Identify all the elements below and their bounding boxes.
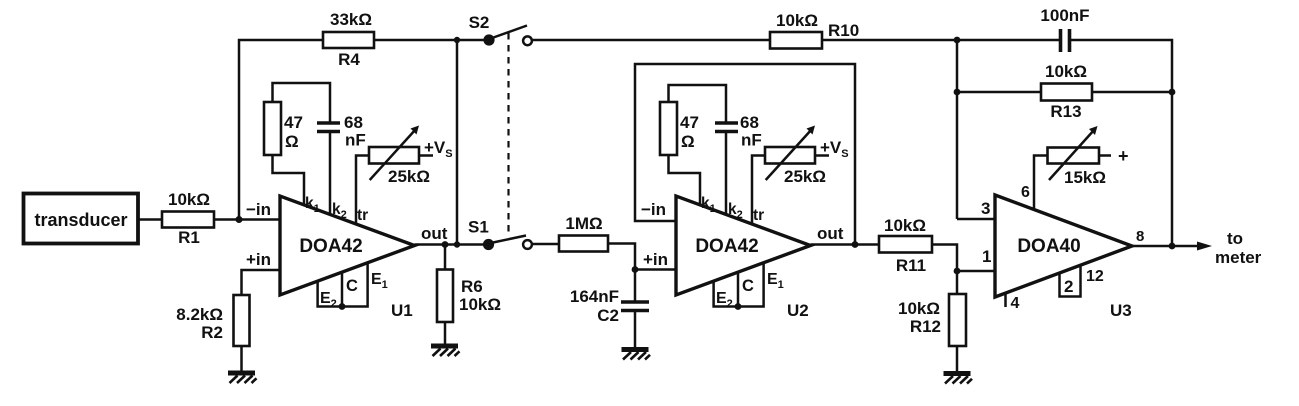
svg-text:out: out (421, 224, 448, 243)
svg-text:out: out (817, 224, 844, 243)
svg-text:10kΩ: 10kΩ (884, 216, 926, 235)
svg-text:12: 12 (1086, 268, 1104, 285)
svg-text:10kΩ: 10kΩ (168, 190, 210, 209)
svg-text:R2: R2 (201, 323, 223, 342)
svg-text:Ω: Ω (681, 132, 695, 151)
svg-text:8.2kΩ: 8.2kΩ (176, 305, 223, 324)
svg-text:10kΩ: 10kΩ (459, 295, 501, 314)
svg-text:2: 2 (1064, 277, 1073, 296)
svg-text:meter: meter (1215, 248, 1262, 267)
svg-text:68: 68 (344, 113, 363, 132)
svg-text:25kΩ: 25kΩ (784, 167, 826, 186)
svg-text:1: 1 (982, 247, 991, 266)
svg-text:25kΩ: 25kΩ (388, 167, 430, 186)
svg-text:tr: tr (753, 207, 764, 224)
svg-text:1MΩ: 1MΩ (565, 214, 602, 233)
svg-text:3: 3 (981, 199, 990, 218)
svg-text:−in: −in (641, 200, 666, 219)
svg-text:C: C (742, 277, 754, 295)
svg-text:DOA42: DOA42 (299, 236, 362, 257)
svg-text:U3: U3 (1110, 301, 1132, 320)
svg-text:R6: R6 (461, 277, 483, 296)
svg-text:R11: R11 (896, 256, 926, 275)
svg-text:10kΩ: 10kΩ (898, 299, 940, 318)
svg-text:68: 68 (740, 113, 759, 132)
svg-text:nF: nF (741, 131, 762, 150)
svg-text:R12: R12 (910, 317, 941, 336)
svg-text:U2: U2 (787, 301, 809, 320)
svg-text:S2: S2 (469, 13, 490, 32)
svg-text:+in: +in (643, 250, 668, 269)
svg-text:15kΩ: 15kΩ (1064, 168, 1106, 187)
svg-text:164nF: 164nF (570, 287, 619, 306)
svg-text:6: 6 (1021, 184, 1030, 201)
svg-text:DOA40: DOA40 (1017, 236, 1080, 257)
svg-text:DOA42: DOA42 (695, 236, 758, 257)
svg-text:S1: S1 (468, 218, 489, 237)
svg-text:nF: nF (345, 131, 366, 150)
svg-text:R4: R4 (338, 50, 360, 69)
svg-text:transducer: transducer (34, 210, 127, 230)
svg-text:8: 8 (1136, 228, 1144, 245)
svg-text:R1: R1 (178, 228, 200, 247)
svg-text:R13: R13 (1050, 102, 1081, 121)
svg-text:to: to (1227, 229, 1243, 248)
svg-text:C: C (346, 277, 358, 295)
svg-text:+: + (1118, 146, 1129, 166)
svg-text:Ω: Ω (285, 132, 299, 151)
svg-text:+in: +in (246, 250, 271, 269)
svg-text:R10: R10 (828, 21, 859, 40)
svg-text:−in: −in (246, 200, 271, 219)
svg-text:47: 47 (680, 113, 699, 132)
svg-text:47: 47 (284, 113, 303, 132)
svg-text:100nF: 100nF (1040, 6, 1089, 25)
svg-text:10kΩ: 10kΩ (776, 11, 818, 30)
svg-text:4: 4 (1011, 295, 1020, 312)
svg-text:C2: C2 (597, 306, 619, 325)
svg-text:10kΩ: 10kΩ (1045, 62, 1087, 81)
svg-text:U1: U1 (391, 301, 413, 320)
svg-text:tr: tr (357, 207, 368, 224)
svg-text:33kΩ: 33kΩ (330, 10, 372, 29)
